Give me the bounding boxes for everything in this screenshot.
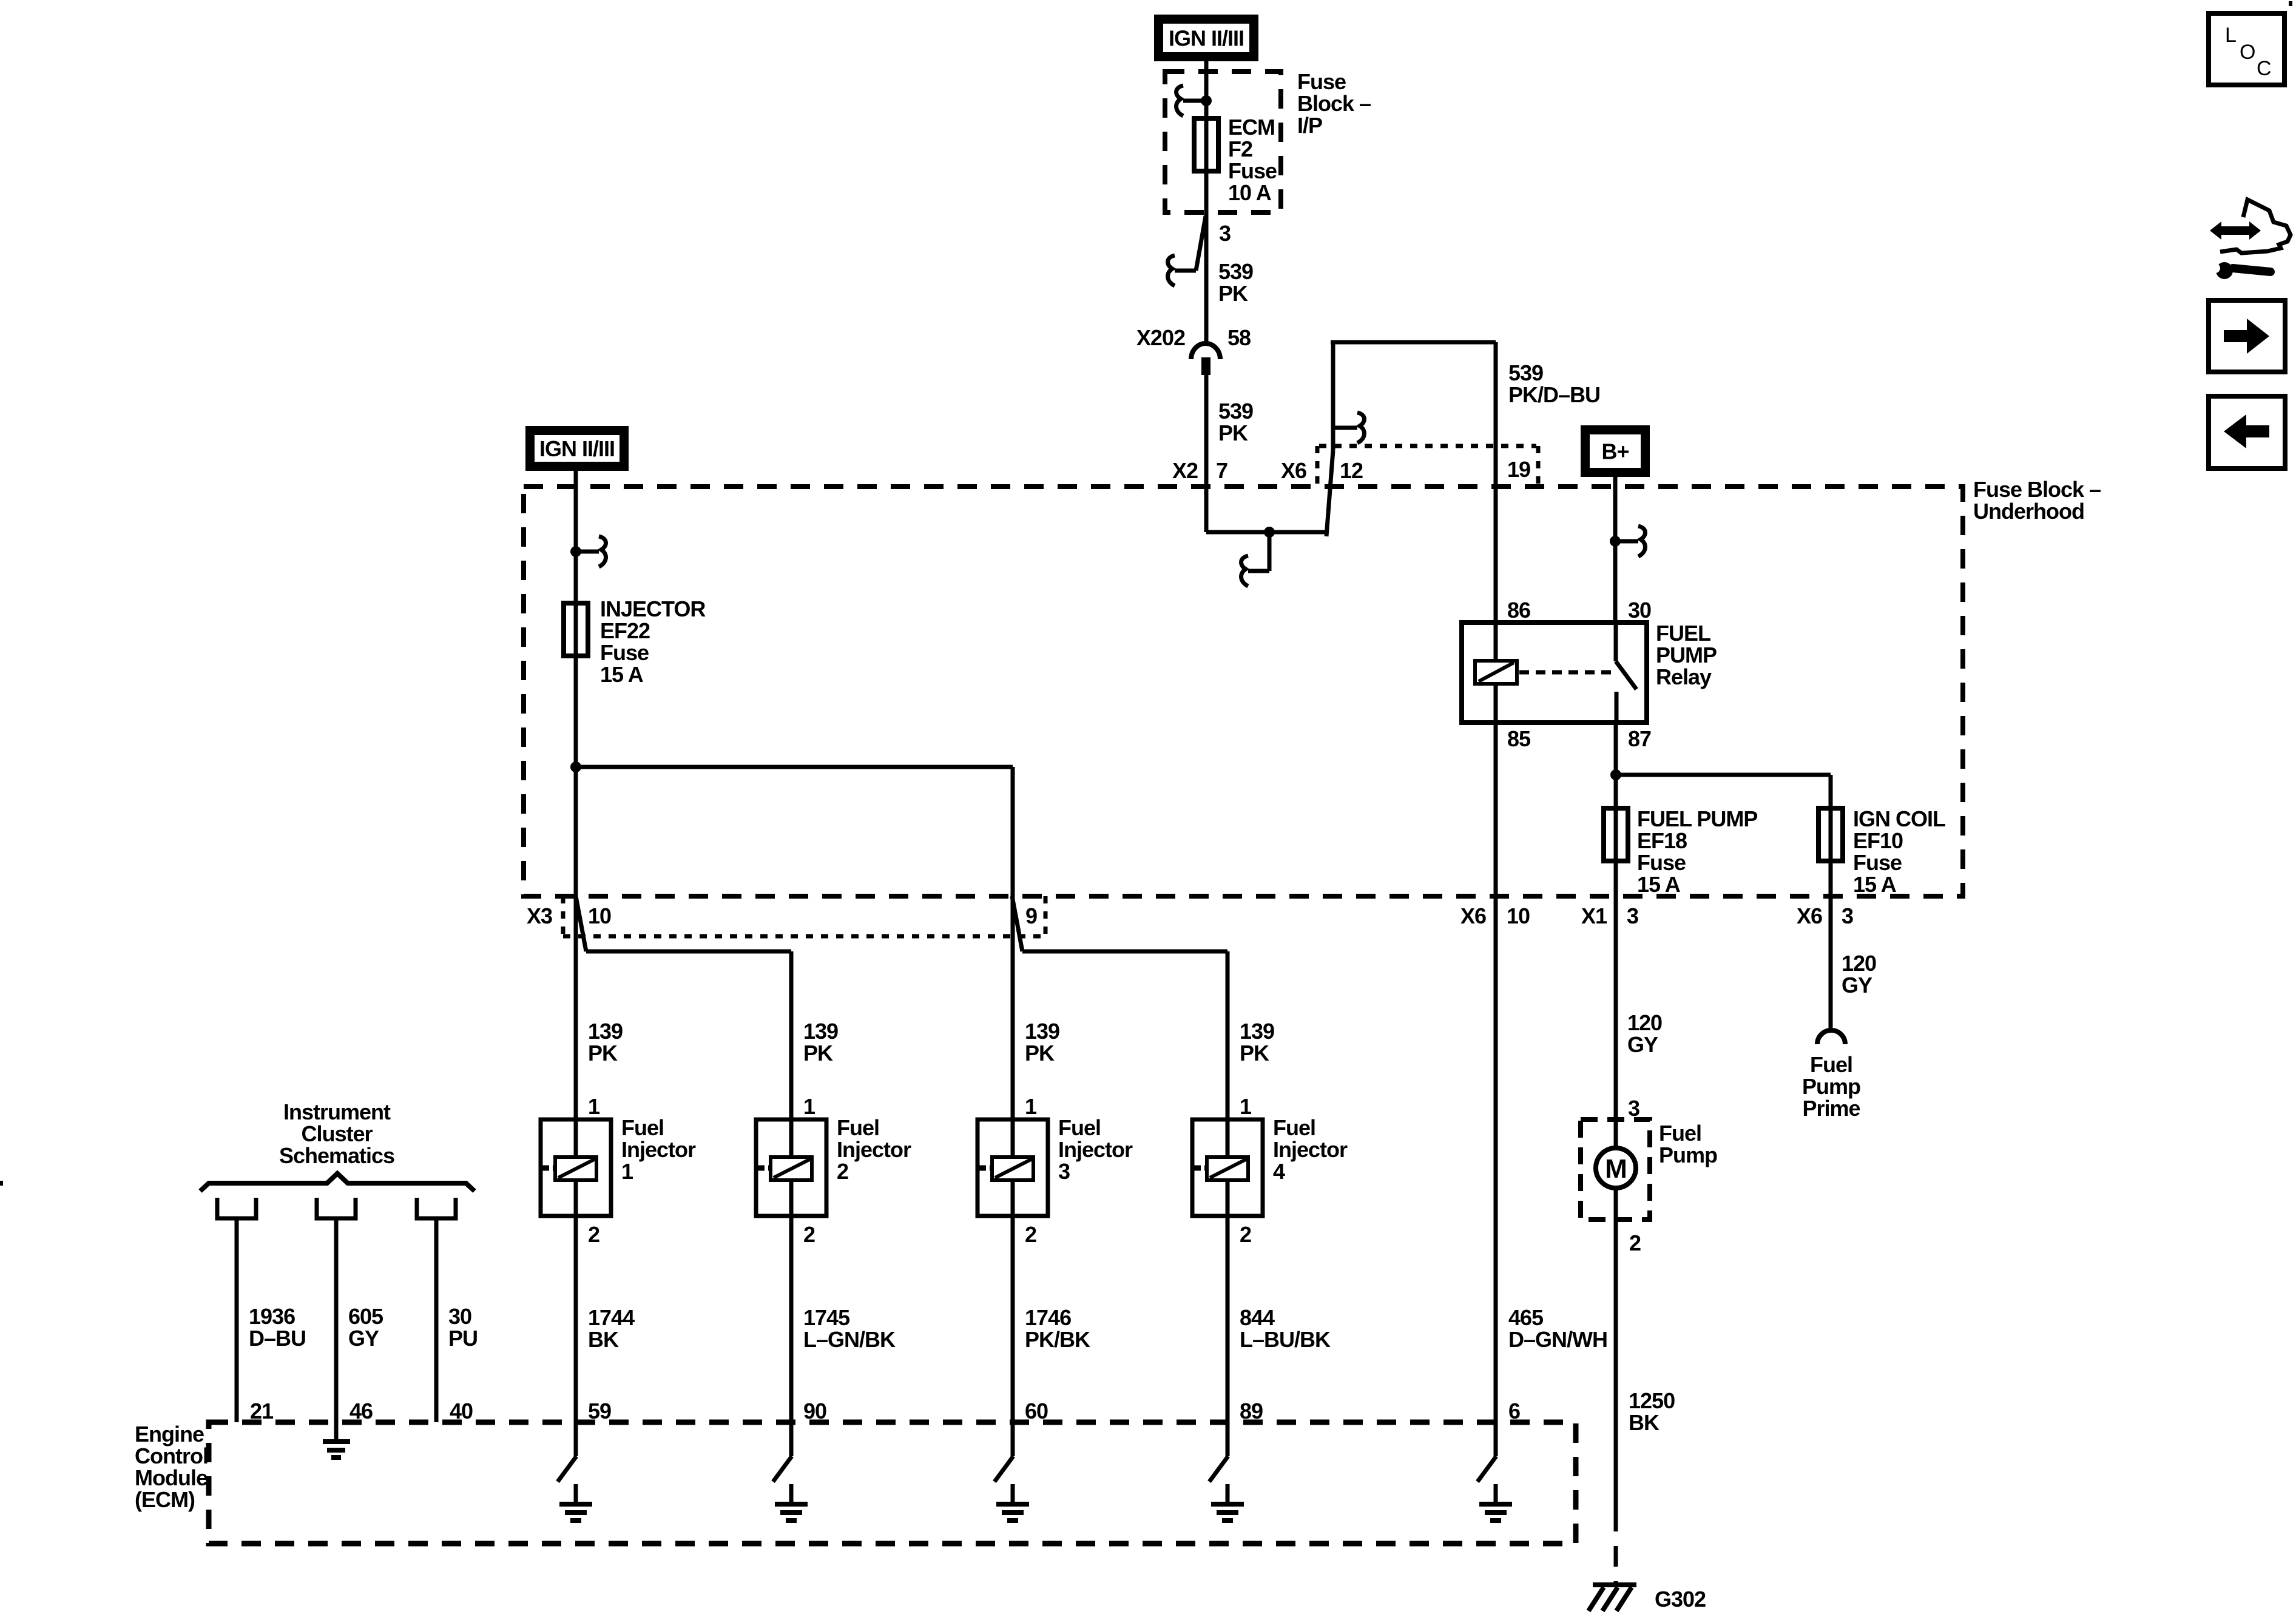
svg-text:X2: X2	[1172, 458, 1198, 483]
corner mark	[2289, 1, 2292, 6]
svg-text:Block –: Block –	[1297, 91, 1371, 116]
ground G302	[1589, 1585, 1636, 1611]
power label IGN II/III (left)	[525, 426, 629, 471]
wire EF18 to fuel pump	[1614, 861, 1618, 1149]
svg-text:PK: PK	[803, 1041, 833, 1065]
power label IGN II/III (top)	[1154, 15, 1258, 61]
svg-text:EF18: EF18	[1637, 828, 1687, 853]
svg-text:FUEL: FUEL	[1656, 621, 1710, 646]
svg-text:12: 12	[1340, 458, 1363, 483]
ECM driver switch (pin 59)	[558, 1422, 576, 1482]
svg-text:85: 85	[1507, 726, 1531, 751]
wire EF10 to prime connector	[1829, 861, 1833, 1030]
svg-text:Fuse: Fuse	[600, 640, 649, 665]
connector pass at X3 pin 9	[1012, 896, 1022, 951]
svg-text:120: 120	[1842, 951, 1876, 976]
svg-text:INJECTOR: INJECTOR	[600, 596, 706, 621]
svg-text:Injector: Injector	[837, 1137, 911, 1162]
fuel injector 4 solenoid	[1192, 1119, 1263, 1216]
relay switch pin 87 stub	[1615, 692, 1619, 723]
fuel pump dashed box	[1581, 1119, 1650, 1220]
svg-text:Injector: Injector	[1273, 1137, 1348, 1162]
svg-text:PK: PK	[1025, 1041, 1055, 1065]
svg-text:605: 605	[348, 1304, 383, 1329]
wire IGN II/III to injector fuse	[574, 471, 578, 1157]
svg-text:Instrument: Instrument	[283, 1099, 391, 1124]
svg-text:PK: PK	[1240, 1041, 1269, 1065]
svg-text:1: 1	[588, 1094, 600, 1119]
svg-text:Engine: Engine	[135, 1422, 204, 1447]
svg-text:IGN II/III: IGN II/III	[539, 436, 615, 461]
svg-text:2: 2	[588, 1222, 599, 1247]
svg-text:D–BU: D–BU	[249, 1326, 306, 1351]
svg-text:F2: F2	[1228, 137, 1252, 161]
svg-text:Schematics: Schematics	[279, 1143, 394, 1168]
svg-text:1744: 1744	[588, 1305, 635, 1330]
wire relay 87 to fuses	[1614, 723, 1618, 861]
svg-text:2: 2	[837, 1159, 848, 1184]
svg-text:IGN II/III: IGN II/III	[1169, 26, 1244, 51]
svg-text:Fuel: Fuel	[1659, 1121, 1701, 1146]
svg-text:PUMP: PUMP	[1656, 643, 1717, 667]
svg-text:10 A: 10 A	[1228, 180, 1272, 205]
ECM internal ground (pin 89)	[1211, 1484, 1244, 1521]
svg-text:Module: Module	[135, 1465, 208, 1490]
svg-text:Cluster: Cluster	[301, 1121, 373, 1146]
svg-text:539: 539	[1218, 259, 1253, 284]
connector stub at pin 3	[1168, 216, 1206, 286]
ECM internal ground (pin 60)	[996, 1484, 1029, 1521]
svg-text:X6: X6	[1460, 903, 1486, 928]
svg-text:PK: PK	[1218, 281, 1248, 306]
brace over cluster circuits	[200, 1173, 474, 1191]
wire from IGN II/III to X202	[1204, 61, 1209, 343]
power label B+	[1581, 425, 1650, 477]
wire injector 4 to ECM	[1226, 1180, 1230, 1422]
wire 539 PK/D-BU vertical	[1331, 342, 1335, 450]
ECM internal ground (pin 90)	[775, 1484, 808, 1521]
svg-text:3: 3	[1058, 1159, 1070, 1184]
svg-text:C: C	[2257, 57, 2272, 80]
svg-text:2: 2	[1240, 1222, 1251, 1247]
svg-text:M: M	[1605, 1154, 1627, 1184]
svg-text:15 A: 15 A	[600, 662, 644, 687]
fuse ECM F2	[1194, 118, 1218, 171]
svg-text:30: 30	[1628, 598, 1651, 623]
svg-text:(ECM): (ECM)	[135, 1487, 195, 1512]
fuse IGN COIL EF10	[1818, 808, 1843, 861]
relay switch pin 30 stub	[1614, 623, 1618, 661]
wrench icon	[2207, 260, 2271, 279]
wire to IGN COIL fuse	[1616, 775, 1831, 861]
svg-text:9: 9	[1025, 903, 1037, 928]
svg-text:4: 4	[1273, 1159, 1285, 1184]
svg-text:Relay: Relay	[1656, 664, 1712, 689]
svg-text:15 A: 15 A	[1637, 872, 1681, 897]
relay actuation dashed link	[1519, 670, 1611, 675]
wire injector 2 to ECM	[789, 1180, 794, 1422]
svg-text:X6: X6	[1281, 458, 1306, 483]
svg-text:3: 3	[1628, 1096, 1639, 1121]
svg-text:Fuel: Fuel	[1810, 1052, 1852, 1077]
connector pass at X6 pin 12	[1326, 450, 1333, 536]
fuel injector 3 solenoid	[977, 1119, 1048, 1216]
svg-text:Pump: Pump	[1659, 1143, 1717, 1167]
svg-text:Fuse: Fuse	[1853, 850, 1902, 875]
branch wire to injector 2	[586, 951, 791, 1157]
svg-text:EF22: EF22	[600, 618, 650, 643]
wire injector 3 to ECM	[1011, 1180, 1015, 1422]
fuel pump motor	[1596, 1148, 1636, 1188]
wire relay 85 to ECM pin 6	[1494, 723, 1498, 1422]
svg-text:19: 19	[1507, 457, 1530, 482]
left margin mark	[0, 1181, 3, 1186]
ECM driver switch (pin 6)	[1477, 1422, 1496, 1482]
svg-text:Fuel: Fuel	[621, 1115, 664, 1140]
svg-text:Fuse: Fuse	[1228, 158, 1277, 183]
connector pass at X3 pin 10	[576, 896, 586, 951]
junction node on EF22 feed	[570, 546, 581, 557]
svg-text:139: 139	[1025, 1019, 1059, 1044]
svg-text:FUEL PUMP: FUEL PUMP	[1637, 806, 1757, 831]
svg-text:3: 3	[1219, 221, 1231, 246]
junction node injector bus	[570, 761, 581, 772]
fuse block underhood dashed box	[524, 487, 1963, 896]
wire fuel pump to ground (solid)	[1614, 1187, 1618, 1511]
svg-text:10: 10	[1507, 903, 1530, 928]
svg-text:ECM: ECM	[1228, 115, 1275, 140]
svg-text:Prime: Prime	[1802, 1096, 1860, 1121]
svg-text:PK: PK	[588, 1041, 618, 1065]
svg-text:L–GN/BK: L–GN/BK	[803, 1327, 896, 1352]
svg-text:Fuel: Fuel	[1273, 1115, 1315, 1140]
svg-text:539: 539	[1508, 360, 1543, 385]
svg-text:1: 1	[621, 1159, 633, 1184]
ECM driver switch (pin 89)	[1209, 1422, 1228, 1482]
svg-text:GY: GY	[348, 1326, 379, 1351]
svg-text:L–BU/BK: L–BU/BK	[1240, 1327, 1331, 1352]
junction node on B+ feed	[1610, 536, 1621, 547]
svg-text:1: 1	[1025, 1094, 1037, 1119]
svg-text:X3: X3	[527, 903, 552, 928]
svg-text:139: 139	[1240, 1019, 1274, 1044]
svg-text:1745: 1745	[803, 1305, 850, 1330]
relay box FUEL PUMP	[1462, 623, 1647, 723]
cluster circuit terminal (605)	[317, 1198, 356, 1218]
wire 539 PK/D-BU top segment	[1331, 340, 1496, 345]
svg-text:30: 30	[448, 1304, 471, 1329]
ECM driver switch (pin 90)	[773, 1422, 792, 1482]
svg-text:D–GN/WH: D–GN/WH	[1508, 1327, 1607, 1352]
cluster circuit terminal (30)	[417, 1198, 456, 1218]
svg-text:2: 2	[803, 1222, 815, 1247]
terminal hook at X6 pin 12	[1333, 413, 1364, 443]
svg-text:3: 3	[1627, 903, 1638, 928]
svg-text:139: 139	[803, 1019, 838, 1044]
connector X3 dotted box (bottom)	[563, 896, 1045, 936]
svg-text:Fuel: Fuel	[1058, 1115, 1101, 1140]
svg-text:L: L	[2225, 24, 2237, 47]
svg-text:PK/BK: PK/BK	[1025, 1327, 1090, 1352]
relay switch blade	[1616, 661, 1636, 689]
terminal stub below junction	[1241, 532, 1269, 586]
svg-text:87: 87	[1628, 726, 1651, 751]
terminal hook on EF22 feed	[576, 536, 606, 567]
svg-text:86: 86	[1507, 598, 1530, 623]
fuse INJECTOR EF22	[564, 603, 588, 656]
fuel injector 1 solenoid	[541, 1119, 611, 1216]
fuel injector 2 solenoid	[756, 1119, 826, 1216]
svg-text:Control: Control	[135, 1443, 208, 1468]
forward arrow box	[2209, 300, 2285, 372]
connector X6 dotted box (top)	[1317, 446, 1538, 485]
svg-text:1746: 1746	[1025, 1305, 1071, 1330]
svg-text:IGN COIL: IGN COIL	[1853, 806, 1945, 831]
wire 1936 D–BU	[235, 1217, 239, 1422]
svg-text:15 A: 15 A	[1853, 872, 1897, 897]
svg-text:1: 1	[1240, 1094, 1252, 1119]
LOC reference box	[2209, 13, 2284, 85]
connector Fuel Pump Prime	[1817, 1030, 1845, 1044]
svg-text:GY: GY	[1842, 973, 1872, 998]
ECM internal ground (pin 6)	[1479, 1484, 1512, 1521]
svg-text:844: 844	[1240, 1305, 1275, 1330]
svg-text:120: 120	[1627, 1010, 1662, 1035]
svg-text:Pump: Pump	[1802, 1074, 1860, 1099]
injector bus horizontal wire	[576, 765, 1013, 769]
svg-text:Fuse: Fuse	[1297, 69, 1346, 94]
svg-text:1250: 1250	[1629, 1388, 1675, 1413]
relay coil	[1475, 661, 1517, 684]
svg-text:7: 7	[1216, 458, 1227, 483]
terminal hook in fuse block I/P	[1177, 86, 1206, 116]
wire 539 PK below X202	[1204, 373, 1209, 532]
wire 605 GY	[334, 1217, 339, 1423]
junction node at pin 87	[1610, 769, 1621, 780]
junction node on ECM F2 feed	[1201, 95, 1212, 106]
svg-text:GY: GY	[1627, 1032, 1658, 1057]
cluster circuit terminal (1936)	[217, 1198, 256, 1218]
ground inside ECM (pin 46)	[323, 1422, 350, 1457]
svg-text:BK: BK	[1629, 1410, 1660, 1435]
svg-text:Fuse: Fuse	[1637, 850, 1686, 875]
svg-text:2: 2	[1629, 1230, 1641, 1255]
svg-text:PU: PU	[448, 1326, 478, 1351]
svg-text:Fuse Block –: Fuse Block –	[1973, 477, 2101, 502]
svg-text:3: 3	[1842, 903, 1853, 928]
hand double-arrow icon	[2210, 200, 2291, 253]
svg-text:1: 1	[803, 1094, 815, 1119]
wire fuel pump to ground (hidden)	[1614, 1511, 1618, 1584]
svg-text:B+: B+	[1601, 439, 1629, 464]
wire from pin 19 to relay 86	[1494, 342, 1498, 623]
svg-text:X202: X202	[1136, 325, 1185, 350]
fuse FUEL PUMP EF18	[1604, 808, 1628, 861]
wire from B+ to relay 30	[1613, 477, 1618, 623]
svg-text:O: O	[2240, 41, 2255, 64]
svg-text:Underhood: Underhood	[1973, 499, 2084, 524]
svg-text:PK: PK	[1218, 420, 1248, 445]
injector bus drop to pin 9	[1011, 767, 1015, 1157]
wire 539 PK horizontal segment	[1206, 530, 1328, 535]
wire injector 1 to ECM	[574, 1180, 578, 1422]
svg-text:465: 465	[1508, 1305, 1544, 1330]
ECM driver switch (pin 60)	[994, 1422, 1013, 1482]
branch wire to injector 4	[1022, 951, 1227, 1157]
ECM internal ground (pin 59)	[559, 1484, 592, 1521]
terminal pin of X202	[1201, 357, 1210, 375]
svg-text:I/P: I/P	[1297, 113, 1322, 138]
relay coil wire top	[1494, 623, 1498, 661]
svg-text:EF10: EF10	[1853, 828, 1903, 853]
svg-text:Injector: Injector	[1058, 1137, 1133, 1162]
svg-text:Injector: Injector	[621, 1137, 696, 1162]
ECM dashed box	[209, 1422, 1576, 1544]
svg-text:539: 539	[1218, 399, 1253, 424]
svg-text:BK: BK	[588, 1327, 619, 1352]
relay coil wire bottom	[1494, 684, 1498, 723]
terminal hook on B+ feed	[1615, 526, 1645, 556]
svg-text:10: 10	[588, 903, 611, 928]
svg-text:G302: G302	[1655, 1587, 1706, 1612]
junction node on 539 PK	[1264, 527, 1275, 538]
back arrow box	[2209, 396, 2285, 468]
wire 30 PU	[434, 1217, 439, 1422]
svg-text:2: 2	[1025, 1222, 1036, 1247]
svg-text:139: 139	[588, 1019, 623, 1044]
svg-text:58: 58	[1227, 325, 1251, 350]
svg-text:1936: 1936	[249, 1304, 295, 1329]
svg-text:X6: X6	[1797, 903, 1822, 928]
svg-text:X1: X1	[1581, 903, 1607, 928]
svg-text:PK/D–BU: PK/D–BU	[1508, 382, 1600, 407]
fuse block I/P dashed box	[1165, 72, 1281, 212]
connector X202 half-circle	[1191, 343, 1220, 359]
svg-text:Fuel: Fuel	[837, 1115, 879, 1140]
